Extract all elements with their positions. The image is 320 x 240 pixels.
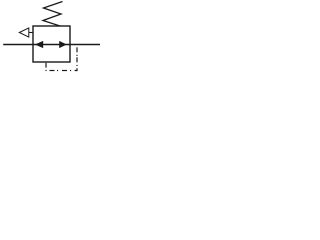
pilot line corner mark (elbow at lower right) (75, 68, 77, 70)
pilot line vertical run to valve bottom: dash (45, 63, 47, 68)
pilot line horizontal run: dash (50, 70, 55, 72)
wire: flow path through valve (33, 44, 70, 46)
pilot line horizontal run: dash (62, 70, 67, 72)
pilot line vertical run: dot (76, 55, 78, 56)
pilot line horizontal run: dot (57, 70, 58, 72)
pressure regulator valve body (box) (33, 26, 70, 62)
pilot line horizontal run: dot (70, 70, 71, 72)
vent/relief triangle (unfilled, pointing left) (19, 28, 29, 37)
arrowhead pointing right (flow direction) (59, 41, 67, 48)
arrowhead pointing left (flow direction) (35, 41, 43, 48)
wire: right outlet port line (70, 44, 100, 46)
pilot line (dash-dot) vertical run at outlet: dash (76, 47, 78, 52)
wire: vent connector to valve body (29, 32, 33, 34)
wire: left inlet port line (3, 44, 33, 46)
pilot line corner dot (lower left) (46, 70, 47, 72)
spring (zigzag) on top of valve (43, 2, 63, 27)
pilot line vertical run: dash (76, 57, 78, 62)
pilot line vertical run: dot (76, 65, 78, 66)
